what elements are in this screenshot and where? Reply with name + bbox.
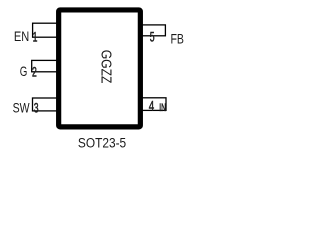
pin 3 box — [33, 98, 60, 111]
pin 5 box — [140, 25, 165, 36]
svg-text:IN: IN — [159, 101, 166, 113]
svg-text:EN: EN — [14, 29, 29, 44]
svg-text:SOT23-5: SOT23-5 — [78, 134, 126, 150]
svg-text:4: 4 — [149, 98, 155, 114]
svg-text:GGZZ: GGZZ — [98, 50, 114, 84]
svg-text:1: 1 — [33, 29, 38, 45]
svg-text:FB: FB — [171, 31, 184, 47]
pin 4 box — [140, 98, 166, 111]
svg-text:5: 5 — [150, 29, 155, 45]
svg-text:3: 3 — [34, 100, 39, 116]
svg-text:2: 2 — [32, 65, 37, 81]
pin 2 box — [32, 60, 60, 71]
pin 1 box — [33, 23, 60, 37]
svg-text:SW: SW — [13, 100, 30, 116]
svg-text:G: G — [20, 65, 28, 80]
body outline U1 SOT23-5 — [59, 10, 141, 127]
